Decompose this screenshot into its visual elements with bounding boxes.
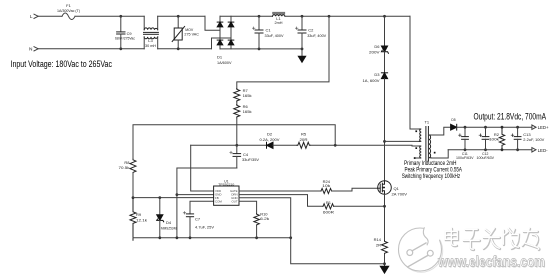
- transistor Q1: [378, 181, 392, 195]
- wire DC+ bus: [220, 15, 273, 17]
- svg-text:33uF/35V: 33uF/35V: [242, 157, 259, 162]
- wire choke to corner: [158, 15, 205, 17]
- svg-text:2mH: 2mH: [275, 20, 283, 25]
- svg-text:Q1: Q1: [394, 186, 400, 191]
- svg-text:165k: 165k: [243, 93, 252, 98]
- svg-text:100uF/63V: 100uF/63V: [456, 156, 474, 160]
- wire ground rail to source return: [291, 238, 385, 264]
- inductor L1: [273, 12, 285, 16]
- wire N rail: [34, 47, 144, 51]
- svg-text:2R: 2R: [376, 242, 381, 247]
- svg-text:N: N: [29, 47, 33, 53]
- node C4 ground: [176, 236, 179, 239]
- capacitor C2: [295, 16, 306, 49]
- svg-text:L: L: [30, 14, 33, 20]
- wire GATE pin line: [239, 190, 321, 192]
- svg-text:0.2A, 200V: 0.2A, 200V: [260, 137, 280, 142]
- svg-text:D6: D6: [374, 44, 380, 49]
- wire VDD line corner: [191, 145, 214, 191]
- svg-text:LED+: LED+: [538, 125, 549, 130]
- svg-text:20R: 20R: [300, 137, 308, 142]
- wire OUT pin line: [239, 201, 257, 213]
- bridge rectifier D1: [217, 16, 234, 49]
- svg-text:Input Voltage: 180Vac to 265Va: Input Voltage: 180Vac to 265Vac: [11, 59, 113, 69]
- node C13 top: [516, 126, 519, 129]
- wire D6 to D3: [384, 52, 386, 73]
- svg-text:30 mH: 30 mH: [145, 43, 156, 48]
- wire secondary top jog: [431, 127, 451, 135]
- svg-text:2.2uF, 100V: 2.2uF, 100V: [523, 138, 545, 142]
- node D4 ground: [158, 236, 161, 239]
- capacitor C11: [459, 127, 469, 150]
- wire primary feed: [410, 16, 419, 129]
- svg-text:1A/300Vac (T): 1A/300Vac (T): [57, 8, 81, 13]
- resistor R5: [297, 142, 310, 148]
- node D4 top junction: [158, 196, 161, 199]
- svg-text:200V: 200V: [369, 49, 380, 54]
- svg-text:R9: R9: [136, 212, 142, 217]
- wire fuse to C9 node: [75, 15, 144, 17]
- node primary return junction: [383, 140, 386, 143]
- wire R10 to ground: [256, 225, 258, 238]
- wire startup feed: [237, 16, 329, 88]
- wire secondary bottom jog: [431, 150, 448, 158]
- wire R8 to divider node: [132, 173, 134, 197]
- svg-text:33uF, 400V: 33uF, 400V: [265, 33, 284, 38]
- node source sense junction: [383, 205, 386, 208]
- wire DC- bus: [220, 48, 302, 50]
- node ground rail corner: [289, 236, 292, 239]
- wire COM pin to C7: [190, 201, 214, 214]
- svg-text:MOV: MOV: [185, 28, 193, 32]
- wire output top rail: [457, 126, 532, 128]
- node bottom rail / C9 junction: [119, 47, 122, 50]
- resistor R9: [130, 198, 136, 241]
- wire GND pin line: [177, 194, 214, 196]
- node C1 top: [258, 15, 261, 18]
- capacitor C13: [511, 127, 521, 150]
- svg-text:6.2k: 6.2k: [260, 216, 269, 221]
- wire ground rail: [133, 237, 291, 239]
- svg-text:600R: 600R: [323, 210, 334, 215]
- node R10 ground: [255, 236, 258, 239]
- svg-text:D5: D5: [451, 118, 455, 122]
- svg-text:70.5k: 70.5k: [119, 165, 130, 170]
- transformer T1: [414, 127, 436, 162]
- node GND pin junction: [176, 193, 179, 196]
- svg-text:33uF, 400V: 33uF, 400V: [307, 33, 326, 38]
- svg-text:LED-: LED-: [538, 148, 549, 153]
- node MOV bottom junction: [177, 47, 180, 50]
- node C11 bottom: [464, 148, 467, 151]
- resistor R14: [382, 241, 388, 255]
- wire output bottom rail: [448, 149, 532, 151]
- zener D6: [381, 46, 388, 53]
- resistor R1: [323, 204, 334, 209]
- svg-text:C7: C7: [195, 217, 201, 222]
- node C1 bottom: [258, 48, 261, 51]
- wire aux sense up-over: [133, 125, 335, 159]
- wire AC2 jog into bridge: [212, 38, 232, 49]
- svg-text:D1: D1: [217, 55, 223, 60]
- node C11 top: [464, 126, 467, 129]
- resistor R6: [234, 105, 240, 118]
- wire D2 to R5: [273, 144, 297, 146]
- resistor R8: [130, 159, 136, 173]
- capacitor C9: [117, 16, 125, 49]
- wire R1 to source node: [334, 205, 385, 207]
- resistor R2: [499, 127, 504, 150]
- svg-text:1A, 600V: 1A, 600V: [363, 78, 380, 83]
- wire C4 return: [177, 168, 237, 238]
- wire L1 to C2 to corner: [285, 15, 410, 17]
- svg-text:MMSZ5248: MMSZ5248: [161, 225, 178, 230]
- node startup tap: [328, 15, 331, 18]
- wire DRN pin line: [239, 195, 323, 207]
- svg-text:68nF/275Vac: 68nF/275Vac: [115, 36, 135, 41]
- wire R24 to gate: [332, 188, 378, 191]
- wire AC1 jog into bridge: [205, 16, 220, 30]
- svg-text:OUT: OUT: [231, 199, 237, 203]
- node VCC junction: [235, 144, 238, 147]
- node aux sense junction: [334, 144, 337, 147]
- ground main: [380, 266, 388, 273]
- svg-text:C13: C13: [523, 132, 531, 137]
- node LED+ pin: [532, 125, 536, 129]
- diode D5: [451, 124, 457, 130]
- zener D4: [157, 198, 164, 238]
- node C2 top: [301, 15, 304, 18]
- wire VCC line left segment: [191, 144, 267, 146]
- svg-text:www.elecfans.com: www.elecfans.com: [437, 255, 545, 271]
- svg-text:Output: 21.8Vdc, 700mA: Output: 21.8Vdc, 700mA: [474, 112, 547, 122]
- node LED- pin: [532, 148, 536, 152]
- node C7 ground: [189, 236, 192, 239]
- svg-text:Switching frequency 100kHz: Switching frequency 100kHz: [402, 173, 461, 180]
- capacitor C12: [479, 127, 489, 150]
- node R2 bottom: [501, 148, 504, 151]
- node C12 top: [484, 126, 487, 129]
- wire primary bottom to drain: [385, 140, 420, 142]
- svg-text:T1: T1: [424, 120, 429, 125]
- wire PGND pin line: [239, 198, 291, 238]
- wire R7 to R6: [236, 102, 238, 105]
- wire R14 to ground: [384, 254, 386, 266]
- node C12 bottom: [484, 148, 487, 151]
- svg-text:C1: C1: [266, 28, 272, 33]
- svg-text:C2: C2: [308, 28, 314, 33]
- wire D3 to drain node: [384, 79, 386, 181]
- node divider junction: [132, 196, 135, 199]
- resistor R7: [234, 89, 240, 102]
- capacitor C7: [183, 212, 193, 238]
- svg-text:COM: COM: [215, 199, 222, 203]
- node L input pin: [34, 14, 38, 18]
- svg-text:1A/600V: 1A/600V: [217, 60, 232, 65]
- svg-text:D3: D3: [374, 72, 380, 77]
- ground bulk: [298, 49, 305, 62]
- diode D3: [381, 73, 387, 79]
- fuse F1: [62, 13, 75, 20]
- resistor R10: [254, 214, 259, 225]
- wire R5 to aux pin: [310, 144, 419, 147]
- svg-text:165k: 165k: [243, 109, 252, 114]
- capacitor C1: [252, 16, 263, 49]
- resistor R24: [321, 188, 332, 193]
- node C13 bottom: [516, 148, 519, 151]
- wire source down: [384, 194, 386, 240]
- svg-text:100k: 100k: [489, 137, 499, 142]
- watermark url text: [437, 255, 546, 272]
- svg-text:TPS92210: TPS92210: [218, 183, 234, 187]
- wire clamp upper: [384, 16, 386, 46]
- diode D2: [267, 142, 274, 148]
- node MOV top junction: [177, 15, 180, 18]
- svg-text:100uF/63V: 100uF/63V: [477, 156, 495, 160]
- node clamp tap: [383, 15, 386, 18]
- node top rail / C9 junction: [119, 15, 122, 18]
- wire R6 to VCC node: [236, 118, 238, 145]
- svg-text:R1: R1: [326, 200, 332, 205]
- watermark logo circle: [399, 227, 444, 273]
- svg-text:275 VAC: 275 VAC: [184, 32, 199, 36]
- node R2 top: [501, 126, 504, 129]
- svg-text:4.7uF, 25V: 4.7uF, 25V: [195, 224, 214, 229]
- node source return junction: [383, 262, 386, 265]
- svg-text:10k: 10k: [322, 183, 330, 188]
- wire L to fuse: [38, 15, 62, 17]
- common mode choke L3: [144, 16, 159, 49]
- capacitor C4: [230, 145, 241, 168]
- node C2 bottom: [301, 48, 304, 51]
- varistor MOV: [172, 16, 184, 49]
- watermark chinese characters: [446, 229, 540, 250]
- op-amp U1 controller box: [214, 186, 239, 205]
- svg-text:12.1k: 12.1k: [136, 217, 147, 222]
- svg-text:2A 700V: 2A 700V: [392, 192, 408, 197]
- wire FB line: [133, 197, 214, 199]
